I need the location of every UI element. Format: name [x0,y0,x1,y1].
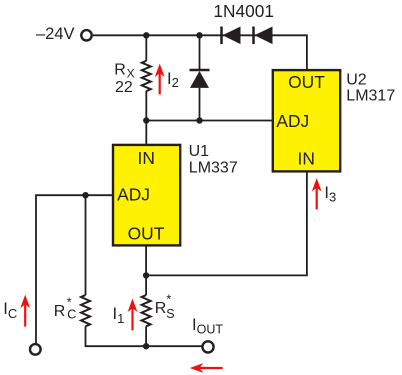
wire feedback rail from OUT node up into U2 IN pin [146,171,307,276]
wire top rail from -24V terminal across to corner and down into U2 OUT pin [93,35,307,71]
block U1 LM337 [113,145,180,246]
node at U1 OUT / feedback rail [143,272,149,278]
node at top rail / diode column [196,32,202,38]
current arrow IC [20,295,30,327]
current arrow I2 [155,64,165,95]
node at top rail / Rx [143,32,149,38]
node at ADJ rail / Rx [143,117,149,123]
wire RS column lower to bottom rail [145,326,147,346]
wire RC column upper [85,195,87,295]
wire from ADJ rail down into U1 IN pin [145,121,147,146]
current arrow IOUT (pointing left) [190,363,223,373]
svg-text:22: 22 [115,79,133,96]
wire ADJ rail from Rx node to U2 ADJ pin [146,120,272,122]
diode D3 vertical (cathode bar up) [190,70,210,88]
wire U1 ADJ pin left and down to Ic terminal [36,195,113,343]
resistor RC [81,295,90,326]
svg-text:R: R [155,300,167,317]
svg-text:LM317: LM317 [346,88,395,105]
current arrow I1 [128,299,138,331]
diode D2 of 1N4001 pair [254,27,273,45]
wire diode column upper stub [199,35,201,69]
node at U1 ADJ wire / RC [82,192,88,198]
svg-text:S: S [166,307,174,321]
svg-text:U2: U2 [346,72,367,89]
wire Rx column upper stub [145,35,147,61]
svg-text:–24V: –24V [36,25,75,43]
svg-text:OUT: OUT [128,224,165,244]
svg-text:LM337: LM337 [189,160,238,177]
wire U1 OUT pin down through feedback node [145,245,147,295]
node at bottom rail / RS [143,343,149,349]
svg-text:1N4001: 1N4001 [213,1,274,21]
node at ADJ rail / diode column [196,117,202,123]
svg-text:ADJ: ADJ [117,184,150,204]
terminal -24V [81,30,91,40]
svg-text:*: * [166,292,171,307]
svg-text:IN: IN [297,149,314,169]
svg-text:U1: U1 [189,143,210,160]
wire Rx column lower stub [145,91,147,121]
block U2 LM317 [273,70,340,171]
svg-text:OUT: OUT [288,72,325,92]
resistor RS [142,295,151,326]
svg-text:ADJ: ADJ [276,111,309,131]
diode D1 of 1N4001 pair [222,27,241,45]
wire RC column lower and bottom rail to IOUT terminal [86,326,203,346]
svg-text:IN: IN [137,148,154,168]
resistor RX 22 [142,61,151,91]
terminal Ic (open circle) [30,344,41,355]
current arrow I3 [312,178,322,209]
wire diode column lower stub [199,88,201,121]
terminal IOUT (open circle) [202,341,213,352]
svg-text:R: R [54,303,66,320]
svg-text:C: C [67,308,76,322]
